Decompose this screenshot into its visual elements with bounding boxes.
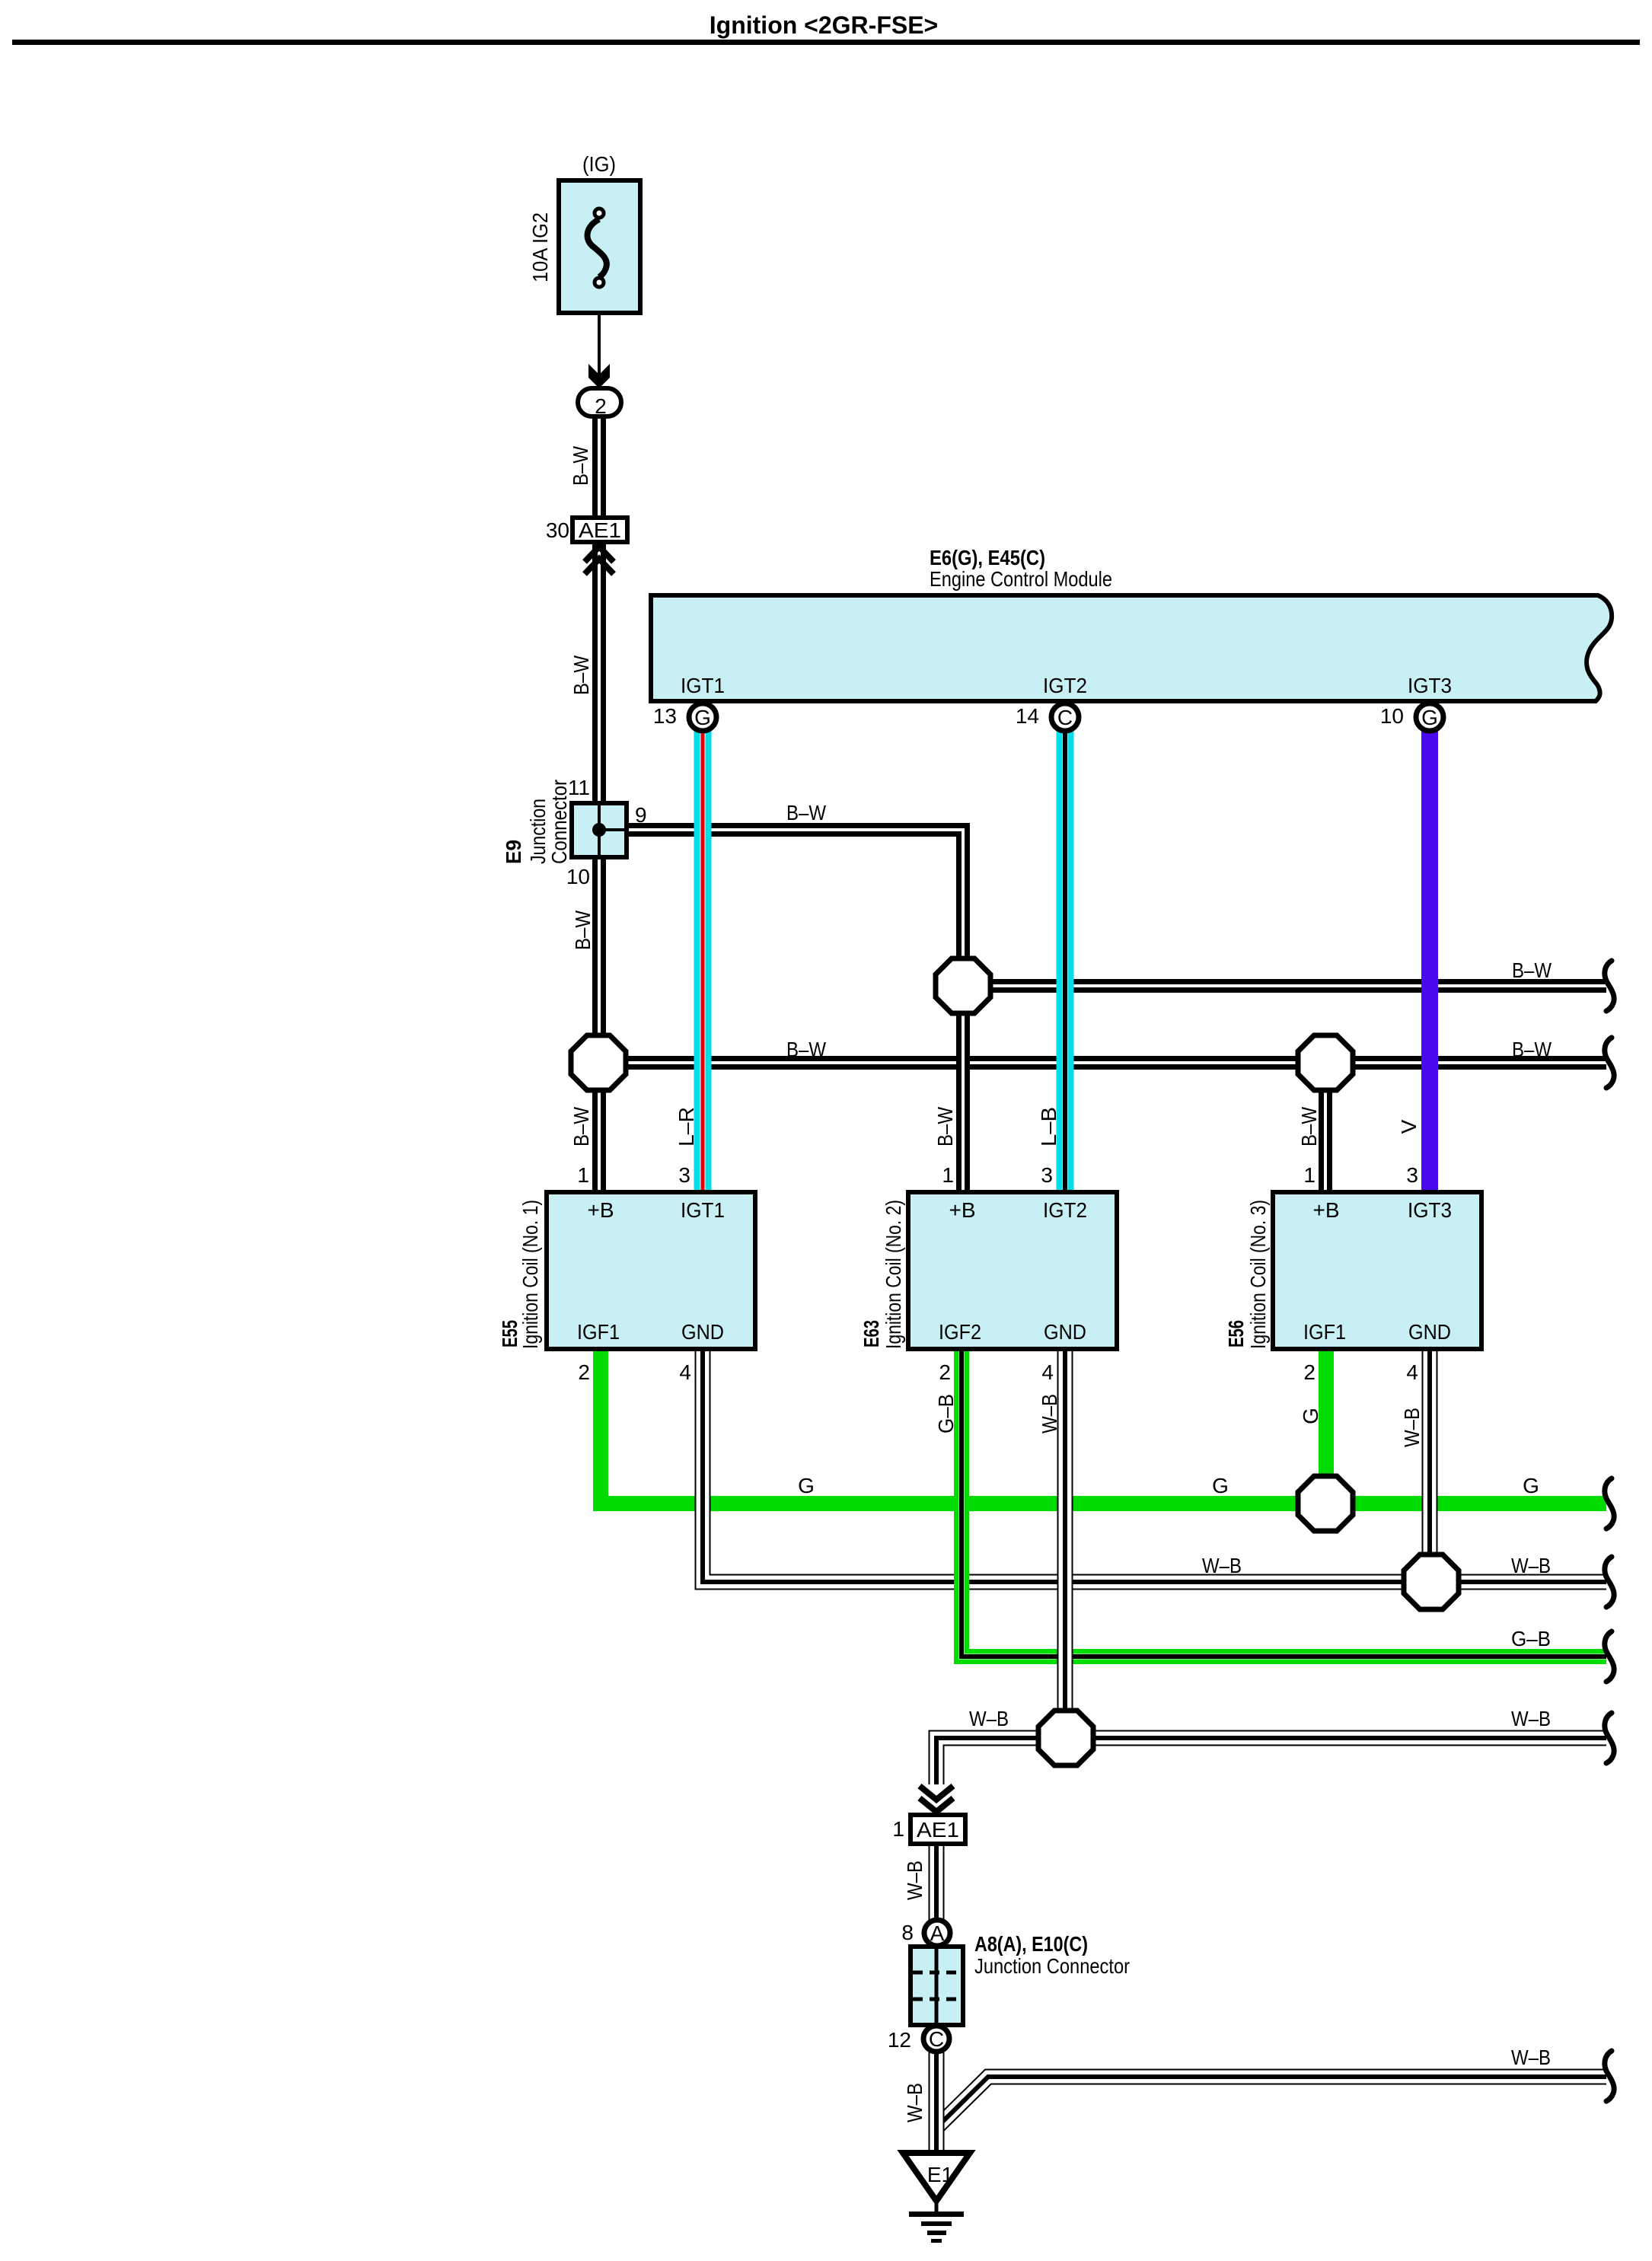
svg-text:11: 11 <box>568 776 590 799</box>
svg-text:10: 10 <box>1380 704 1404 728</box>
octagon G junction D <box>1298 1476 1353 1531</box>
svg-text:10: 10 <box>566 865 590 888</box>
break curl G <box>1605 1478 1614 1529</box>
svg-text:IGF2: IGF2 <box>939 1320 981 1344</box>
wire: V from ECM 10 to coil3 IGT3 <box>1429 719 1430 1194</box>
svg-text:12: 12 <box>888 2028 911 2052</box>
svg-text:10A IG2: 10A IG2 <box>528 212 552 282</box>
ECM box E6/E45 <box>651 595 1612 701</box>
svg-text:IGT1: IGT1 <box>681 1198 725 1222</box>
svg-text:Junction Connector: Junction Connector <box>974 1954 1130 1978</box>
svg-text:AE1: AE1 <box>579 518 621 542</box>
svg-text:GND: GND <box>1408 1320 1451 1344</box>
svg-text:30: 30 <box>546 518 569 542</box>
wire: W-B bottom diagonal branch to right break <box>936 2077 1606 2128</box>
svg-text:B–W: B–W <box>569 446 592 486</box>
ECM pin circle 14 C <box>1051 703 1079 731</box>
svg-text:W–B: W–B <box>969 1707 1009 1730</box>
svg-text:W–B: W–B <box>903 2083 926 2122</box>
wire: B-W horizontal from E9 pin 9 to corner, down to octagon A <box>627 830 963 961</box>
svg-text:2: 2 <box>939 1360 951 1384</box>
break curl G-B <box>1605 1631 1614 1682</box>
connector box 30 AE1 <box>572 518 627 542</box>
svg-text:4: 4 <box>679 1360 691 1384</box>
svg-text:G: G <box>1421 706 1438 729</box>
svg-text:IGF1: IGF1 <box>1303 1320 1346 1344</box>
svg-text:IGT3: IGT3 <box>1408 1198 1452 1222</box>
svg-text:B–W: B–W <box>786 1038 826 1061</box>
fuse terminal bottom circle <box>595 278 604 287</box>
wire: W-B circle C down to ground E1 <box>936 2052 937 2155</box>
svg-text:GND: GND <box>1044 1320 1086 1344</box>
svg-text:1: 1 <box>942 1163 954 1187</box>
svg-text:2: 2 <box>1303 1360 1316 1384</box>
wire: W-B AE1 to circle A <box>936 1844 937 1920</box>
solid down arrow above oval 2 <box>588 364 610 388</box>
wire: B-W vertical octagon C to coil3 +B <box>1325 1089 1326 1194</box>
svg-text:1: 1 <box>892 1817 904 1841</box>
svg-text:B–W: B–W <box>571 910 595 950</box>
break curl W-B 2 <box>1605 1713 1614 1763</box>
circle C <box>923 2026 949 2052</box>
svg-text:4: 4 <box>1041 1360 1054 1384</box>
svg-text:IGT2: IGT2 <box>1043 1198 1087 1222</box>
connector box 1 AE1 <box>911 1815 965 1844</box>
wire: B-W vertical fuse column (oval to AE1, AE1 to E9, E9 to oct B, oct B to coil1) <box>598 416 600 519</box>
fuse 10A IG2 box <box>559 180 640 313</box>
svg-text:A8(A), E10(C): A8(A), E10(C) <box>974 1932 1088 1956</box>
wire: thin line fuse to arrow <box>598 285 601 390</box>
svg-text:IGT3: IGT3 <box>1408 674 1452 697</box>
ignition coil 1 box E55 <box>547 1192 755 1349</box>
svg-text:3: 3 <box>1406 1163 1418 1187</box>
svg-text:G: G <box>694 706 711 729</box>
svg-text:G: G <box>1299 1408 1322 1424</box>
wire: G-B from coil2 IGF2 down and right to break <box>962 1347 1606 1657</box>
wire: W-B coil2 GND down to octagon F <box>1064 1347 1066 1712</box>
svg-text:C: C <box>1057 706 1073 729</box>
svg-text:B–W: B–W <box>786 801 826 824</box>
svg-text:C: C <box>929 2027 944 2051</box>
svg-text:W–B: W–B <box>903 1861 926 1900</box>
ECM pin circle 13 G <box>689 703 716 731</box>
svg-text:W–B: W–B <box>1202 1554 1242 1577</box>
ground bar 4 <box>931 2239 942 2243</box>
svg-text:14: 14 <box>1016 704 1039 728</box>
svg-text:3: 3 <box>678 1163 690 1187</box>
junction connector A8/E10 block <box>911 1947 963 2025</box>
break curl B-W lower <box>1605 1038 1614 1088</box>
down arrow above AE1 bottom <box>920 1786 953 1800</box>
octagon W-B junction E <box>1404 1555 1459 1609</box>
wire: W-B octagon F right to break <box>1090 1737 1606 1739</box>
wire: B-W horizontal octagon B to right break <box>624 1062 1606 1064</box>
wire: G green from coil1 IGF1 down and right to break <box>601 1347 1606 1504</box>
svg-text:1: 1 <box>1303 1163 1316 1187</box>
svg-text:IGF1: IGF1 <box>577 1320 620 1344</box>
junction connector E9 box <box>572 803 627 857</box>
svg-text:L–B: L–B <box>1037 1107 1060 1146</box>
svg-text:B–W: B–W <box>933 1107 957 1146</box>
ignition coil 2 box E63 <box>908 1192 1117 1349</box>
svg-text:Ignition Coil (No. 2): Ignition Coil (No. 2) <box>882 1200 905 1349</box>
circle A <box>924 1920 950 1946</box>
break curl B-W upper <box>1605 961 1614 1011</box>
svg-text:2: 2 <box>595 394 607 418</box>
octagon B-W junction B <box>571 1035 626 1090</box>
svg-text:E63: E63 <box>859 1320 883 1347</box>
svg-text:Ignition Coil (No. 1): Ignition Coil (No. 1) <box>518 1200 542 1349</box>
svg-text:4: 4 <box>1406 1360 1418 1384</box>
svg-text:W–B: W–B <box>1511 2046 1551 2069</box>
up arrow below AE1 <box>585 547 614 562</box>
svg-text:E6(G), E45(C): E6(G), E45(C) <box>930 546 1045 569</box>
wire: W-B coil3 GND down to octagon E <box>1429 1347 1430 1558</box>
wire: L-R from ECM 13 to coil1 IGT1 <box>702 719 703 1194</box>
svg-text:Junction: Junction <box>526 799 550 864</box>
svg-text:8: 8 <box>901 1921 914 1944</box>
svg-text:E1: E1 <box>927 2163 953 2186</box>
svg-text:E56: E56 <box>1224 1320 1248 1347</box>
svg-text:Engine Control Module: Engine Control Module <box>930 567 1112 591</box>
svg-text:3: 3 <box>1041 1163 1053 1187</box>
break curl W-B 1 <box>1605 1557 1614 1607</box>
svg-text:1: 1 <box>577 1163 589 1187</box>
octagon B-W junction C <box>1298 1035 1353 1090</box>
ignition coil 3 box E56 <box>1273 1192 1481 1349</box>
octagon W-B junction F <box>1038 1711 1093 1765</box>
svg-text:(IG): (IG) <box>582 152 616 176</box>
octagon B-W junction A <box>936 958 990 1013</box>
svg-text:Ignition <2GR-FSE>: Ignition <2GR-FSE> <box>710 11 938 39</box>
ground E1 triangle <box>903 2153 970 2201</box>
wire: W-B octagon F left to corner down to arrow <box>936 1738 1041 1784</box>
svg-text:L–R: L–R <box>675 1107 698 1146</box>
ground bar 1 <box>909 2212 964 2217</box>
svg-text:B–W: B–W <box>569 1107 593 1146</box>
svg-text:G: G <box>1212 1474 1229 1497</box>
svg-text:W–B: W–B <box>1511 1707 1551 1730</box>
svg-text:G–B: G–B <box>1511 1627 1551 1650</box>
svg-text:G: G <box>1523 1474 1539 1497</box>
svg-text:IGT2: IGT2 <box>1043 674 1087 697</box>
svg-text:AE1: AE1 <box>917 1818 959 1842</box>
fuse element S-curve <box>588 219 607 277</box>
wire: G green coil3 IGF1 to octagon D <box>1325 1347 1327 1478</box>
svg-text:+B: +B <box>949 1198 975 1222</box>
svg-text:13: 13 <box>653 704 677 728</box>
svg-text:B–W: B–W <box>1512 1038 1552 1061</box>
svg-text:Ignition Coil (No. 3): Ignition Coil (No. 3) <box>1246 1200 1270 1349</box>
ground stub <box>935 2201 939 2214</box>
wire: B-W vertical octagon A to coil2 +B <box>962 1010 964 1194</box>
fuse terminal top circle <box>595 209 604 218</box>
svg-text:IGT1: IGT1 <box>681 674 725 697</box>
svg-text:+B: +B <box>587 1198 614 1222</box>
svg-text:W–B: W–B <box>1038 1394 1061 1433</box>
ground bar 3 <box>927 2231 946 2235</box>
svg-text:GND: GND <box>681 1320 724 1344</box>
svg-text:2: 2 <box>578 1360 590 1384</box>
svg-text:B–W: B–W <box>569 655 593 695</box>
svg-text:G–B: G–B <box>934 1394 958 1433</box>
wire: W-B from coil1 GND down and right to break <box>703 1347 1606 1582</box>
svg-text:B–W: B–W <box>1512 958 1552 982</box>
wire: B-W horizontal octagon A to right break <box>989 985 1606 987</box>
svg-text:V: V <box>1397 1119 1421 1134</box>
wire: L-B from ECM 14 to coil2 IGT2 <box>1064 719 1066 1194</box>
ground bar 2 <box>921 2221 952 2226</box>
svg-text:G: G <box>798 1474 815 1497</box>
title rule <box>12 40 1640 45</box>
svg-text:B–W: B–W <box>1297 1107 1321 1146</box>
svg-text:W–B: W–B <box>1400 1408 1424 1447</box>
svg-text:E9: E9 <box>502 840 525 864</box>
svg-text:+B: +B <box>1312 1198 1339 1222</box>
oval connector 2 <box>578 388 621 416</box>
break curl W-B 3 <box>1605 2051 1614 2101</box>
ECM pin circle 10 G <box>1416 703 1443 731</box>
svg-text:W–B: W–B <box>1511 1554 1551 1577</box>
svg-text:Connector: Connector <box>547 780 571 864</box>
svg-text:A: A <box>930 1921 945 1945</box>
svg-text:9: 9 <box>635 803 647 827</box>
